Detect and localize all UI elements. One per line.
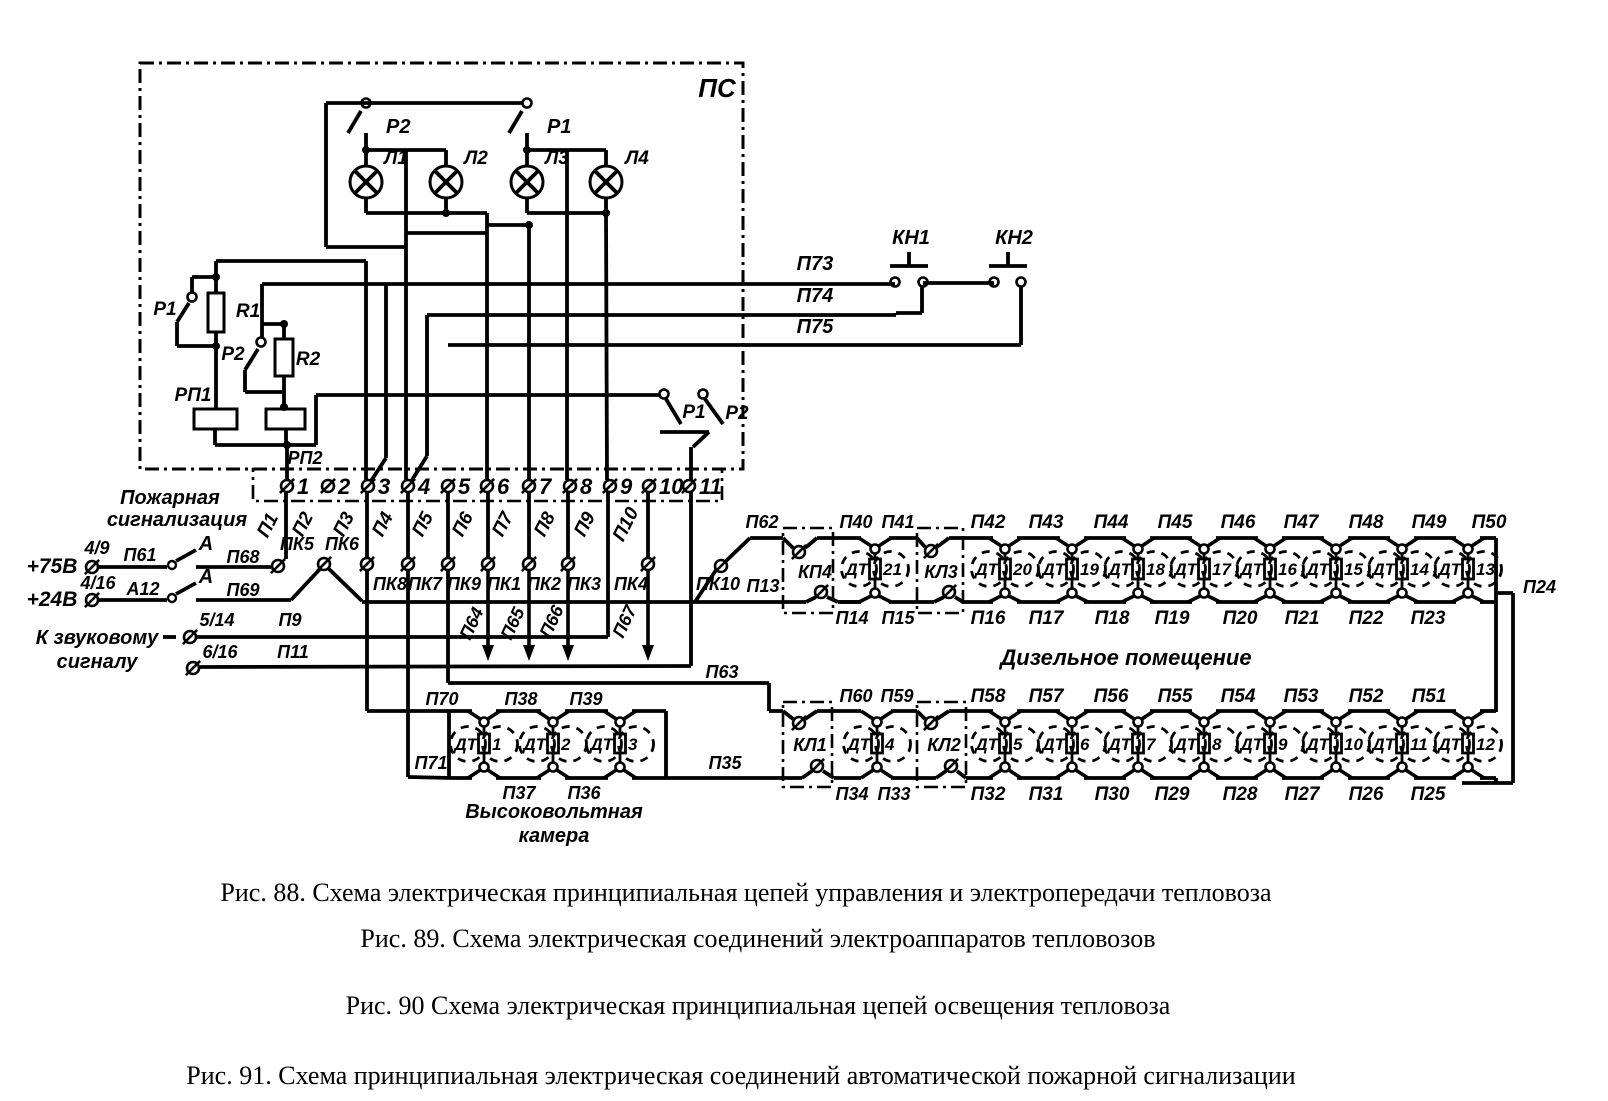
svg-text:П75: П75: [797, 316, 835, 338]
button КН1: [890, 252, 928, 287]
svg-text:П37: П37: [503, 783, 537, 803]
svg-text:11: 11: [1410, 735, 1428, 754]
svg-text:А: А: [198, 566, 213, 588]
connector КЛ2 bottom: [936, 759, 966, 778]
lamp Л2: [430, 166, 462, 198]
svg-text:Р2: Р2: [221, 344, 245, 365]
svg-text:4/9: 4/9: [83, 538, 109, 558]
svg-text:ПК5: ПК5: [280, 534, 315, 554]
detector ДТ19: [1039, 538, 1106, 602]
wire row1 bottom ДТ21-КЛ3: [889, 600, 934, 604]
svg-text:П33: П33: [878, 784, 911, 804]
svg-text:П69: П69: [227, 580, 260, 600]
wire terminal1 drop: [284, 492, 288, 559]
svg-text:ДТ: ДТ: [1040, 560, 1066, 579]
svg-text:П47: П47: [1284, 512, 1320, 533]
svg-text:Р1: Р1: [547, 116, 571, 138]
lamp Л3: [511, 166, 543, 198]
junction box КЛ3 (dash-dot): [917, 528, 963, 613]
svg-text:КН2: КН2: [995, 227, 1033, 249]
svg-text:9: 9: [620, 474, 633, 499]
wire Р1 to lamps Л3/Л4 feed: [523, 133, 606, 166]
svg-text:14: 14: [1410, 560, 1429, 579]
wire row1 top КП4-ДТ21: [817, 536, 861, 540]
connector КЛ1 top: [783, 711, 817, 730]
detector ДТ5: [972, 711, 1039, 778]
terminal П68: [271, 559, 285, 573]
arrow П66: [566, 570, 570, 651]
terminal 1: [280, 479, 294, 493]
wire П68: [196, 565, 271, 569]
svg-text:3: 3: [378, 474, 390, 499]
svg-text:Р2: Р2: [725, 403, 749, 424]
svg-text:К звуковому: К звуковому: [36, 627, 159, 649]
svg-text:+75В: +75В: [27, 555, 78, 578]
svg-text:ПК3: ПК3: [567, 574, 601, 594]
svg-text:П40: П40: [840, 512, 873, 532]
svg-text:П48: П48: [1349, 512, 1384, 533]
svg-text:П60: П60: [840, 686, 873, 706]
svg-text:П28: П28: [1223, 784, 1258, 805]
svg-text:П43: П43: [1029, 512, 1064, 533]
switch contact Р2 (relay contact left): [245, 284, 288, 370]
svg-text:ДТ: ДТ: [1436, 735, 1462, 754]
wire П71 / bottom outline hv chain: [452, 776, 666, 780]
svg-text:П36: П36: [568, 783, 602, 803]
svg-text:П16: П16: [971, 608, 1006, 629]
wire terminal4 to П71: [408, 570, 452, 778]
switch ПК10: [714, 559, 728, 573]
wire terminal3 to П70: [367, 570, 449, 711]
detector ДТ10: [1303, 711, 1370, 778]
relay coil РП2: [266, 409, 305, 445]
wire row2 ДТ4-КЛ2: [891, 709, 917, 713]
detector ДТ1: [451, 711, 518, 778]
wire П70: [449, 709, 666, 713]
lamp Л1: [350, 166, 382, 198]
svg-text:П50: П50: [1472, 512, 1507, 533]
svg-text:П55: П55: [1158, 686, 1193, 707]
svg-text:П18: П18: [1095, 608, 1130, 629]
wire row1 ДТ21-КЛ3: [889, 536, 917, 540]
svg-text:Р1: Р1: [682, 402, 705, 423]
svg-text:ДТ: ДТ: [1238, 560, 1264, 579]
svg-text:16: 16: [1278, 560, 1297, 579]
wire row1 chain top outline: [949, 536, 1496, 540]
svg-text:П52: П52: [1349, 686, 1384, 707]
svg-text:15: 15: [1344, 560, 1363, 579]
wire РП2 coil to terminal 1: [285, 445, 289, 480]
svg-text:ДТ: ДТ: [1304, 560, 1330, 579]
svg-text:ПК9: ПК9: [447, 574, 481, 594]
svg-text:П71: П71: [415, 753, 448, 773]
svg-text:6: 6: [497, 474, 510, 499]
wire row2 chain bottom outline: [966, 776, 1496, 780]
svg-text:ПК7: ПК7: [408, 574, 443, 594]
wire coil bottoms to Р1Р2 switch: [215, 395, 659, 449]
svg-text:ДТ: ДТ: [452, 735, 478, 754]
wire row2 bottom ДТ4-КЛ2: [891, 776, 936, 780]
connector КП4 top: [783, 538, 817, 559]
svg-text:КЛ3: КЛ3: [924, 562, 957, 582]
switch ПК3: [561, 557, 575, 571]
svg-text:П58: П58: [971, 686, 1006, 707]
svg-text:Рис. 91. Схема принципиальная: Рис. 91. Схема принципиальная электричес…: [186, 1061, 1295, 1090]
svg-text:10: 10: [659, 474, 684, 499]
svg-text:П68: П68: [227, 547, 260, 567]
wire П9: [197, 492, 608, 637]
wire lamp return bus: [366, 198, 610, 229]
svg-text:П41: П41: [882, 512, 915, 532]
switch А (row 2): [98, 583, 196, 602]
svg-text:7: 7: [1146, 735, 1157, 754]
label К звуковому сигналу: [36, 627, 159, 673]
wire R1 node to terminal 3 branch: [216, 261, 366, 480]
svg-text:9: 9: [1278, 735, 1288, 754]
svg-text:ДТ: ДТ: [1304, 735, 1330, 754]
wire node 7 vertical (to terminal 7): [527, 225, 531, 480]
detector ДТ9: [1237, 711, 1304, 778]
svg-text:П34: П34: [836, 784, 869, 804]
wire П69: [196, 598, 291, 602]
switch ПК2: [522, 557, 536, 571]
detector ДТ13: [1435, 538, 1502, 602]
wire jog into terminal 3: [371, 284, 386, 481]
svg-text:камера: камера: [519, 825, 590, 847]
button КН2: [989, 252, 1027, 287]
wire terminal drops to ПК contacts: [367, 492, 648, 558]
detector ДТ3: [587, 711, 654, 778]
svg-text:ДТ: ДТ: [588, 735, 614, 754]
svg-text:ДТ: ДТ: [1106, 735, 1132, 754]
wire hv chain right closure: [664, 711, 668, 778]
svg-text:ПК10: ПК10: [696, 574, 740, 594]
connector КП4 bottom: [806, 585, 838, 602]
arrow П65: [527, 570, 531, 651]
switch ПК1: [481, 557, 495, 571]
detector ДТ20: [972, 538, 1039, 602]
svg-text:Л2: Л2: [462, 148, 488, 169]
svg-text:6/16: 6/16: [202, 642, 238, 662]
connector КЛ3 bottom: [934, 585, 963, 602]
svg-text:Р1: Р1: [153, 299, 176, 320]
svg-text:П54: П54: [1221, 686, 1256, 707]
svg-text:П53: П53: [1284, 686, 1319, 707]
wire row2 chain top outline: [949, 709, 1496, 713]
svg-text:П30: П30: [1095, 784, 1130, 805]
enclosure ПС (dash-dot box): [140, 63, 743, 469]
svg-text:1: 1: [492, 735, 501, 754]
terminal 5/14: [183, 630, 197, 644]
detector ДТ14: [1369, 538, 1436, 602]
svg-text:П27: П27: [1285, 784, 1321, 805]
junction box КП4 (dash-dot): [783, 528, 833, 613]
svg-text:Л4: Л4: [623, 148, 649, 169]
svg-text:П46: П46: [1221, 512, 1256, 533]
svg-text:сигнализация: сигнализация: [107, 509, 248, 531]
svg-text:П14: П14: [836, 608, 869, 628]
connector КЛ1 bottom: [802, 759, 834, 778]
svg-text:ДТ: ДТ: [1172, 560, 1198, 579]
resistor R1: [177, 261, 224, 409]
connector КЛ3 top: [917, 538, 949, 558]
wire left drop from P2 bus: [324, 103, 328, 247]
switch ПК5/ПК6: [291, 557, 362, 601]
wire П11: [200, 492, 691, 667]
svg-text:ДТ: ДТ: [973, 560, 999, 579]
svg-text:4/16: 4/16: [79, 573, 116, 593]
svg-text:А: А: [198, 533, 213, 555]
svg-text:12: 12: [1476, 735, 1495, 754]
svg-text:3: 3: [628, 735, 638, 754]
terminal 3: [361, 479, 375, 493]
wire node 6 vertical (to terminal 6): [406, 225, 487, 480]
svg-text:ДТ: ДТ: [521, 735, 547, 754]
switch ПК4: [641, 557, 655, 571]
wire jog into terminal 4: [412, 315, 427, 480]
lamp Л4: [590, 166, 622, 198]
relay coil РП1: [194, 409, 237, 445]
switch ПК9: [441, 557, 455, 571]
svg-text:П11: П11: [277, 642, 309, 662]
svg-text:ДТ: ДТ: [843, 560, 869, 579]
svg-text:П61: П61: [124, 545, 157, 565]
resistor R2: [245, 324, 293, 411]
wire row2 bottom КЛ1-ДТ4: [834, 776, 861, 780]
svg-text:ПК1: ПК1: [487, 574, 521, 594]
terminal 6/16: [186, 661, 200, 675]
svg-text:А12: А12: [125, 579, 159, 599]
svg-text:П42: П42: [971, 512, 1006, 533]
wire node 9 vertical (Л4 to terminal 9): [606, 213, 607, 480]
svg-text:18: 18: [1146, 560, 1165, 579]
detector ДТ12: [1435, 711, 1502, 778]
svg-text:7: 7: [539, 474, 553, 499]
svg-text:ПК8: ПК8: [373, 574, 407, 594]
svg-text:5: 5: [1013, 735, 1023, 754]
svg-text:П26: П26: [1349, 784, 1384, 805]
svg-text:П19: П19: [1155, 608, 1190, 629]
switch А (row 1): [98, 550, 196, 569]
svg-text:П15: П15: [882, 608, 916, 628]
svg-text:П25: П25: [1411, 784, 1446, 805]
svg-text:ПК4: ПК4: [614, 574, 648, 594]
svg-text:Рис. 88. Схема электрическая п: Рис. 88. Схема электрическая принципиаль…: [220, 878, 1272, 907]
svg-text:5/14: 5/14: [199, 610, 234, 630]
switch ПК7: [401, 557, 415, 571]
wire П74: [427, 287, 922, 315]
detector ДТ17: [1171, 538, 1238, 602]
wire row1 chain bottom outline: [963, 600, 1496, 604]
svg-text:ДТ: ДТ: [1436, 560, 1462, 579]
svg-text:ДТ: ДТ: [845, 735, 871, 754]
svg-text:П17: П17: [1029, 608, 1065, 629]
switch Р2 (box top): [348, 99, 371, 134]
switch contact Р1 (relay contact left): [177, 277, 216, 322]
svg-text:П13: П13: [747, 576, 780, 596]
svg-text:КЛ1: КЛ1: [793, 735, 826, 755]
svg-text:ДТ: ДТ: [1370, 560, 1396, 579]
svg-text:17: 17: [1212, 560, 1232, 579]
svg-text:Пожарная: Пожарная: [120, 487, 220, 509]
terminal strip (dash-dot): [253, 469, 722, 501]
detector ДТ18: [1105, 538, 1172, 602]
svg-text:КН1: КН1: [892, 227, 930, 249]
detector ДТ2: [520, 711, 587, 778]
svg-text:6: 6: [1080, 735, 1090, 754]
wire node 4 vertical (Л2 feed to terminal 4): [326, 150, 406, 480]
terminal 11: [682, 479, 696, 493]
wire П75: [448, 287, 1021, 345]
terminal 6: [480, 479, 494, 493]
svg-text:ДТ: ДТ: [1370, 735, 1396, 754]
svg-text:11: 11: [699, 474, 722, 499]
svg-text:19: 19: [1080, 560, 1099, 579]
svg-text:ПК6: ПК6: [325, 534, 360, 554]
svg-text:2: 2: [560, 735, 571, 754]
svg-text:П62: П62: [746, 512, 779, 532]
wire row1 bottom П13-ДТ21: [838, 600, 861, 604]
svg-text:ДТ: ДТ: [1238, 735, 1264, 754]
wire П13: [362, 570, 806, 602]
terminal 4: [401, 479, 415, 493]
svg-text:1: 1: [297, 474, 309, 499]
detector ДТ6: [1039, 711, 1106, 778]
dash to sound terminal: [163, 635, 176, 639]
wire top bus P2-P1: [326, 101, 522, 105]
wire Р2 to lamps Л1/Л2 feed: [362, 133, 446, 166]
svg-text:4: 4: [884, 735, 895, 754]
terminal 4/16: [85, 593, 99, 607]
terminal 8: [563, 479, 577, 493]
svg-text:ДТ: ДТ: [1172, 735, 1198, 754]
svg-text:П23: П23: [1411, 608, 1446, 629]
svg-text:КП4: КП4: [798, 562, 832, 582]
svg-text:П49: П49: [1412, 512, 1447, 533]
svg-text:П22: П22: [1349, 608, 1384, 629]
terminal 4/9: [85, 560, 99, 574]
svg-text:П45: П45: [1158, 512, 1193, 533]
svg-text:П20: П20: [1223, 608, 1258, 629]
wire П62 диагональ: [726, 538, 783, 561]
svg-text:П35: П35: [709, 753, 743, 773]
wire node 8 vertical (to terminal 8): [565, 150, 569, 480]
switch Р1 (box top): [509, 99, 532, 134]
wire П73: [262, 282, 895, 286]
svg-text:ДТ: ДТ: [973, 735, 999, 754]
detector ДТ15: [1303, 538, 1370, 602]
svg-text:20: 20: [1012, 560, 1032, 579]
terminal 9: [603, 479, 617, 493]
detector ДТ21: [842, 538, 909, 602]
svg-text:П32: П32: [971, 784, 1006, 805]
svg-text:ПС: ПС: [698, 73, 737, 103]
svg-text:Л1: Л1: [382, 148, 408, 169]
svg-text:4: 4: [417, 474, 430, 499]
svg-text:РП2: РП2: [288, 448, 323, 468]
junction box КЛ1 (dash-dot): [783, 702, 832, 787]
svg-text:П39: П39: [570, 689, 603, 709]
labels ПК5 ПК6: [280, 534, 360, 554]
svg-text:Рис. 90 Схема электрическая п: Рис. 90 Схема электрическая принципиальн…: [346, 991, 1171, 1020]
wire row1 right closure: [1494, 538, 1498, 712]
svg-text:П24: П24: [1523, 577, 1556, 597]
svg-text:8: 8: [1212, 735, 1222, 754]
svg-text:ДТ: ДТ: [1106, 560, 1132, 579]
svg-text:Р2: Р2: [386, 116, 410, 138]
svg-text:П29: П29: [1155, 784, 1190, 805]
svg-text:П57: П57: [1029, 686, 1065, 707]
terminal 5: [441, 479, 455, 493]
svg-text:П56: П56: [1094, 686, 1129, 707]
connector КЛ2 top: [917, 711, 949, 730]
detector ДТ16: [1237, 538, 1304, 602]
switch Р1-Р2 changeover: [660, 390, 724, 481]
svg-text:Рис. 89. Схема электрическая с: Рис. 89. Схема электрическая соединений …: [360, 924, 1155, 953]
svg-text:П73: П73: [797, 253, 834, 275]
svg-text:П44: П44: [1094, 512, 1129, 533]
wire terminal5 to П63: [448, 570, 783, 711]
svg-text:П9: П9: [279, 610, 302, 630]
switch ПК8: [360, 557, 374, 571]
label Высоковольтная камера: [465, 801, 643, 847]
wire КН1 to КН2: [923, 281, 994, 285]
svg-text:РП1: РП1: [175, 385, 212, 406]
svg-text:ПК2: ПК2: [527, 574, 561, 594]
svg-text:Дизельное помещение: Дизельное помещение: [998, 645, 1251, 670]
svg-text:П31: П31: [1029, 784, 1064, 805]
label Пожарная сигнализация: [107, 487, 248, 531]
svg-text:10: 10: [1344, 735, 1363, 754]
svg-text:R1: R1: [236, 301, 260, 322]
svg-text:21: 21: [882, 560, 902, 579]
svg-text:+24В: +24В: [27, 588, 78, 611]
terminal 2: [321, 479, 335, 493]
wire КП4 bottom exit: [838, 600, 861, 604]
terminal 10: [642, 479, 656, 493]
svg-text:П63: П63: [706, 662, 739, 682]
detector ДТ8: [1171, 711, 1238, 778]
svg-text:П74: П74: [797, 285, 834, 307]
svg-text:8: 8: [580, 474, 593, 499]
svg-text:13: 13: [1476, 560, 1495, 579]
svg-text:Высоковольтная: Высоковольтная: [465, 801, 643, 823]
svg-text:П38: П38: [505, 689, 538, 709]
junction box КЛ2 (dash-dot): [917, 702, 966, 787]
arrow П64: [486, 570, 490, 651]
wire П35: [666, 776, 802, 780]
svg-text:П51: П51: [1412, 686, 1447, 707]
svg-text:2: 2: [337, 474, 351, 499]
svg-text:5: 5: [458, 474, 471, 499]
detector ДТ11: [1369, 711, 1436, 778]
wire П24: [1462, 593, 1513, 783]
svg-text:сигналу: сигналу: [57, 651, 139, 673]
svg-text:П59: П59: [881, 686, 914, 706]
wire row2 top КЛ1-ДТ4: [817, 709, 861, 713]
terminal 7: [522, 479, 536, 493]
detector ДТ4: [844, 711, 911, 778]
wire hv chain left closure: [447, 711, 451, 778]
svg-text:R2: R2: [296, 349, 321, 370]
svg-text:П70: П70: [426, 689, 459, 709]
arrow П67: [646, 570, 650, 651]
svg-text:ДТ: ДТ: [1040, 735, 1066, 754]
svg-text:П21: П21: [1285, 608, 1320, 629]
detector ДТ7: [1105, 711, 1172, 778]
svg-text:КЛ2: КЛ2: [927, 735, 960, 755]
